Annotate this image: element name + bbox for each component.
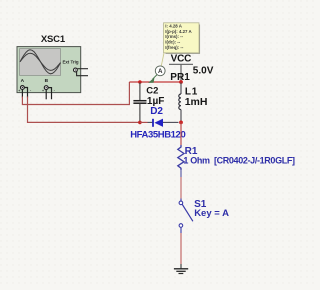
svg-text:Ext Trig: Ext Trig: [62, 60, 78, 65]
inductor L1: [179, 83, 181, 123]
svg-text:I(rms): --: I(rms): --: [165, 34, 183, 39]
terminal B pins: [42, 86, 56, 100]
switch S1: [179, 199, 193, 234]
svg-text:+: +: [18, 89, 20, 93]
svg-text:XSC1: XSC1: [41, 34, 66, 45]
svg-text:1mH: 1mH: [185, 96, 208, 108]
scope trace A (outer sine): [20, 50, 61, 74]
wire scope A+ to top net: [22, 82, 129, 105]
value Key = A: [194, 208, 229, 219]
junction VCC node: [179, 80, 183, 84]
svg-text:HFA35HB120: HFA35HB120: [130, 129, 185, 140]
wire node to R1: [180, 122, 182, 145]
label PR1: [170, 72, 190, 83]
junction C2 bottom: [138, 121, 142, 125]
label R1: [185, 146, 198, 157]
label C2: [146, 85, 158, 96]
readout text I(rms): --: [165, 34, 183, 39]
ground: [174, 264, 188, 274]
svg-text:A: A: [158, 68, 163, 75]
probe PR1 symbol (ammeter circle A): [155, 66, 165, 76]
probe readout box: [164, 23, 200, 54]
power VCC symbol: [169, 64, 193, 82]
readout text I(p-p): 4.27 A: [165, 29, 192, 34]
junction C2 top: [138, 80, 142, 84]
wire R1 to switch: [180, 170, 182, 177]
label D2: [150, 106, 163, 117]
wire top net (to VCC node): [129, 81, 181, 83]
label L1: [185, 87, 198, 98]
svg-text:C2: C2: [146, 85, 158, 96]
value 5.0V: [193, 65, 214, 76]
svg-text:1 Ohm [CR0402-J/-1R0GLF]: 1 Ohm [CR0402-J/-1R0GLF]: [183, 155, 295, 165]
readout text I(dc): --: [165, 40, 180, 45]
probe arrow: [148, 75, 157, 83]
value 1uF: [147, 96, 164, 107]
readout text I(freq): --: [165, 45, 184, 50]
label XSC1: [41, 34, 66, 45]
value 1mH: [185, 96, 208, 108]
svg-text:I(p-p): 4.27 A: I(p-p): 4.27 A: [165, 29, 192, 34]
ext trig pin: [74, 68, 89, 76]
diode D2: [153, 119, 163, 127]
wire switch to ground: [180, 233, 182, 264]
readout text I: 4.28 A: [165, 24, 183, 29]
diode D2 lead left: [148, 121, 154, 123]
value HFA35HB120: [130, 129, 185, 140]
svg-text:B: B: [45, 78, 49, 84]
svg-text:I: 4.28 A: I: 4.28 A: [165, 24, 183, 29]
svg-text:VCC: VCC: [171, 53, 192, 64]
junction L1 bottom node: [179, 121, 183, 125]
label B (channel): [45, 78, 49, 84]
diode D2 lead right: [163, 121, 179, 123]
svg-text:1µF: 1µF: [147, 96, 164, 107]
probe leader line: [161, 53, 164, 66]
label Ext Trig: [62, 60, 78, 65]
capacitor C2: [133, 83, 146, 123]
svg-text:5.0V: 5.0V: [193, 65, 214, 76]
terminal A pins: [18, 86, 32, 98]
svg-text:+: +: [42, 89, 44, 93]
svg-text:I(freq): --: I(freq): --: [165, 45, 184, 50]
svg-text:D2: D2: [150, 106, 163, 117]
label VCC: [171, 53, 192, 64]
label S1: [194, 199, 207, 210]
scope trace B (inner sine): [20, 53, 61, 70]
svg-text:I(dc): --: I(dc): --: [165, 40, 180, 45]
resistor R1: [178, 145, 184, 170]
wire scope A- to bottom net: [28, 97, 140, 123]
label A (channel): [21, 78, 25, 84]
value 1 Ohm [CR0402-J/-1R0GLF]: [183, 155, 295, 165]
oscilloscope XSC1 body: [17, 47, 81, 93]
svg-text:Key = A: Key = A: [194, 208, 229, 219]
wire C2 junction to diode: [140, 121, 148, 123]
svg-text:A: A: [21, 78, 25, 84]
